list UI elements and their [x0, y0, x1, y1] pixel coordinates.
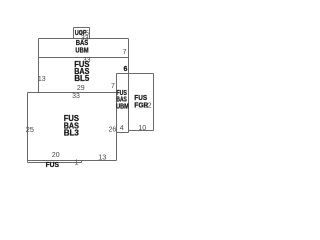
wire bottom edge BAS/UBM section [39, 57, 129, 59]
wire left edge upper sections [38, 39, 40, 93]
wire left edge BL3 [27, 93, 29, 163]
svg-text:20: 20 [52, 152, 60, 159]
svg-text:BL3: BL3 [64, 128, 79, 138]
wire garage bottom [129, 130, 154, 132]
svg-text:7: 7 [123, 49, 127, 56]
svg-text:13: 13 [38, 76, 46, 83]
wire right edge BL3 [116, 74, 118, 161]
svg-text:26: 26 [109, 126, 117, 133]
svg-text:10: 10 [138, 125, 146, 132]
wire bottom edge BL3 [28, 160, 117, 162]
wire porch strip right end [81, 161, 83, 163]
svg-text:33: 33 [83, 57, 91, 64]
svg-text:6: 6 [123, 66, 127, 73]
svg-text:1: 1 [75, 159, 79, 166]
wire right section bottom [117, 132, 129, 134]
wire top edge BAS/UBM section [39, 38, 129, 40]
svg-text:UBM: UBM [116, 103, 129, 110]
svg-text:4: 4 [120, 125, 124, 132]
wire garage right edge [153, 74, 155, 131]
section UOP box [74, 28, 90, 39]
svg-text:25: 25 [26, 125, 34, 134]
svg-text:33: 33 [81, 35, 89, 42]
svg-text:29: 29 [77, 85, 85, 92]
svg-text:7: 7 [111, 83, 115, 90]
svg-text:FUS: FUS [46, 160, 59, 169]
wire shared edge BL5/BL3 [28, 92, 117, 94]
svg-text:UBM: UBM [75, 45, 88, 54]
wire porch strip bottom [28, 162, 82, 164]
svg-text:BL5: BL5 [74, 73, 89, 83]
svg-text:13: 13 [98, 153, 106, 162]
wire long right edge / garage left [128, 39, 130, 133]
svg-text:33: 33 [72, 93, 80, 100]
svg-text:22: 22 [144, 102, 152, 109]
wire top edge garage/right section [117, 73, 154, 75]
